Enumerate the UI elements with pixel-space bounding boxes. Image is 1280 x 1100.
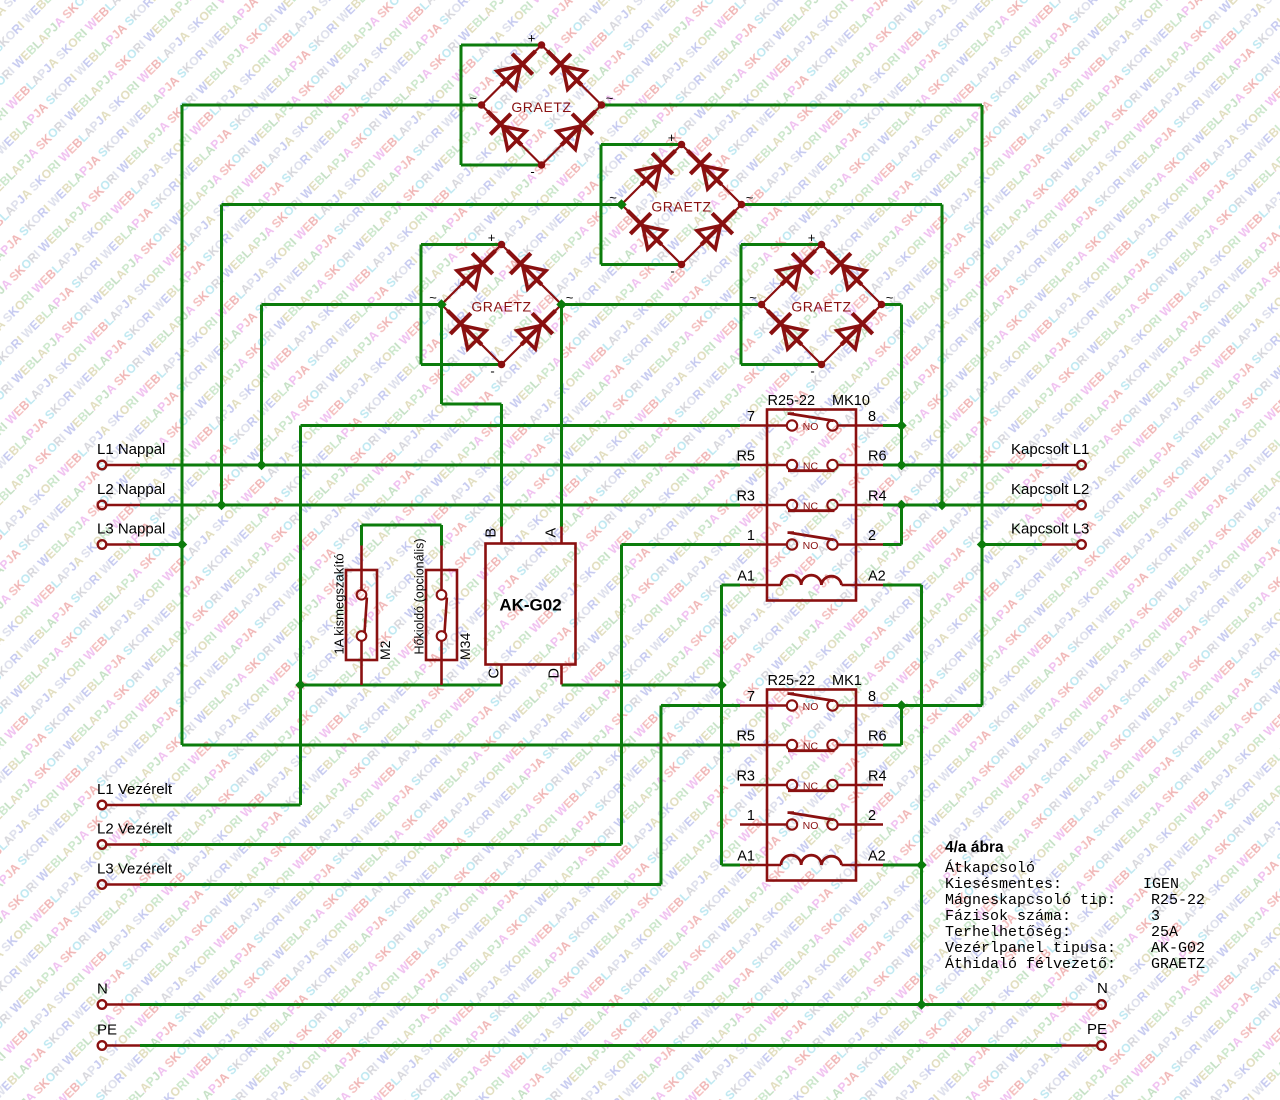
wire B3 jog vertical to pin B [500,404,503,527]
svg-text:3: 3 [1151,908,1160,925]
wire GRAETZ bridge B3 +/- short (top) [421,243,502,246]
contactor MK10 (R25-22) [736,393,886,601]
terminal N [98,1000,107,1009]
breaker M34 [413,538,474,685]
svg-text:Áthidaló félvezető:: Áthidaló félvezető: [945,955,1116,973]
wire PE rail [140,1044,1062,1047]
wire B4 ~right horizontal [882,303,902,306]
junction B2 right / R4 row [937,500,947,510]
terminal Kapcsolt L2 [1077,501,1086,510]
svg-text:2: 2 [868,528,876,544]
wire MK1 row8 horizontal [902,704,983,707]
terminal L3 Nappal pin stub [107,543,140,546]
breaker M2 top pin [360,546,363,591]
wire pin D horizontal [562,684,722,687]
wire B2 ~right horizontal [742,203,943,206]
svg-text:NC: NC [803,460,819,472]
svg-text:AK-G02: AK-G02 [1151,940,1205,957]
terminal L3 Vezérelt pin stub [107,883,140,886]
breaker M34 bottom pin [440,641,443,685]
wire MK10 pin8 to junction [883,424,902,427]
wire MK1 A1 horizontal [722,864,741,867]
wire L3 Vezerelt horizontal [140,883,661,886]
wire GRAETZ bridge B2 +/- short (top) [601,143,682,146]
wire GRAETZ bridge B2 +/- short (bottom) [601,263,682,266]
AK-G02 box [486,544,576,665]
junction MK1 A2 / N vertical [916,860,926,870]
MK10 contact NO (pins 1/2) [740,543,787,546]
svg-text:7: 7 [747,689,755,705]
terminal PE pin stub [107,1044,140,1047]
MK10 contact NC (pins R3/R4) [740,504,787,507]
wire GRAETZ bridge B1 +/- short (left) [460,45,463,165]
wire MK1 pin7 row [661,704,740,707]
svg-text:N: N [1097,980,1108,997]
terminal PE [98,1041,107,1050]
breaker M2 box [346,570,377,660]
svg-text:L1 Nappal: L1 Nappal [97,441,165,458]
MK10 contact NO (pins 7/8) [740,424,787,427]
junction B2 ~left vertex [616,199,626,209]
wire B2 ~right vertical [941,205,944,506]
wire L2 Nappal horizontal [140,504,740,507]
breaker M34 top pin [440,546,443,591]
svg-text:Átkapcsoló: Átkapcsoló [945,859,1035,877]
svg-text:L2 Vezérelt: L2 Vezérelt [97,821,173,838]
junction bottom rail / L1 Vezerelt [295,680,305,690]
breaker M2 [332,546,394,686]
AK-G02 pin C stub [500,665,503,685]
svg-text:Kapcsolt L3: Kapcsolt L3 [1011,521,1089,538]
svg-text:L1 Vezérelt: L1 Vezérelt [97,781,173,798]
svg-text:1A kismegszakító: 1A kismegszakító [332,553,347,654]
MK1 coil winding (pins A1/A2) [740,864,781,867]
wire B3 ~left to L1 Nappal (horiz) [262,303,442,306]
svg-text:NC: NC [803,740,819,752]
svg-text:PE: PE [1087,1021,1107,1038]
svg-text:NO: NO [803,701,819,713]
contactor MK1 (R25-22) [736,673,886,881]
wire MK1 pin8 to junction [883,704,902,707]
wire GRAETZ bridge B4 +/- short (left) [740,245,743,365]
svg-text:NC: NC [803,500,819,512]
wire B2 ~left to L2 Nappal (horiz) [222,203,622,206]
svg-text:R5: R5 [736,729,755,745]
svg-text:AK-G02: AK-G02 [499,596,561,615]
AK-G02 pin A stub [560,527,563,544]
svg-text:R25-22: R25-22 [768,393,816,409]
terminal N right pin stub [1062,1003,1097,1006]
svg-text:8: 8 [868,689,876,705]
contactor MK10 box [767,410,856,601]
wire A1 net vertical [720,585,723,865]
wire L3 Nappal horizontal [140,543,182,546]
junction pin D rail / A1 net [716,680,726,690]
wire B3 ~left to L1 Nappal (vert) [260,305,263,466]
wire A2/N vertical [920,585,923,1005]
svg-text:L2 Nappal: L2 Nappal [97,481,165,498]
svg-text:R25-22: R25-22 [768,673,816,689]
wire B1 ~left vertical down to MK1 R5 [181,105,184,745]
svg-text:1: 1 [747,528,755,544]
svg-text:L3 Vezérelt: L3 Vezérelt [97,861,173,878]
svg-text:Kiesésmentes:: Kiesésmentes: [945,876,1062,893]
wire MK10 pin1 row [622,543,741,546]
svg-text:NO: NO [803,421,819,433]
svg-text:R6: R6 [868,449,887,465]
wire MK10 junction down to R6 row [900,426,903,466]
MK1 contact NO (pins 7/8) [740,704,787,707]
wire bottom rail M2/M34/C [301,684,502,687]
terminal N right [1097,1000,1106,1009]
svg-text:8: 8 [868,409,876,425]
breaker M2 bottom pin [360,641,363,685]
terminal L1 Nappal [98,461,107,470]
breaker M2 contact circles and blade [357,590,367,600]
junction B3 ~right vertex [556,299,566,309]
terminal L3 Vezérelt [98,880,107,889]
GRAETZ bridge rectifier B3 [429,230,574,379]
svg-text:M2: M2 [377,640,393,660]
wire to MK1 R5 horizontal [182,744,740,747]
contactor MK1 box [767,690,856,881]
svg-text:A2: A2 [868,849,886,865]
AK-G02 pin D stub [560,665,563,685]
svg-text:R3: R3 [736,489,755,505]
junction L1 Nappal / B3 left [256,460,266,470]
wire L1 Nappal horizontal [140,464,740,467]
junction MK10 R6 row [896,460,906,470]
junction MK10 R4 row [896,500,906,510]
svg-text:A1: A1 [737,849,755,865]
wire MK10 R6 row to Kapcsolt L1 [883,464,1042,467]
svg-text:NO: NO [803,540,819,552]
MK1 contact NC (pins R3/R4) [740,784,787,787]
wire L2 Vezerelt horizontal [140,843,622,846]
wire MK1 junction down to R6 [900,706,903,746]
junction N rail / A2 vertical [916,999,926,1009]
svg-text:B: B [484,528,500,538]
svg-text:25A: 25A [1151,924,1178,941]
terminal N pin stub [107,1003,140,1006]
GRAETZ bridge rectifier B2 [609,130,754,279]
svg-text:D: D [547,668,563,678]
terminal PE right [1097,1041,1106,1050]
svg-text:R25-22: R25-22 [1151,892,1205,909]
terminal L2 Nappal [98,501,107,510]
wire B2 ~left to L2 Nappal (vert) [220,205,223,506]
svg-text:A: A [544,528,560,538]
junction L3 Nappal / B1 left [177,539,187,549]
svg-text:Kapcsolt L2: Kapcsolt L2 [1011,481,1089,498]
terminal L1 Vezérelt pin stub [107,804,140,807]
svg-text:NO: NO [803,820,819,832]
wire B3 jog vertical 1 [440,305,443,405]
breaker M34 contact circles and blade [437,590,447,600]
wire B3 ~right to B4 ~left [562,303,762,306]
svg-text:PE: PE [97,1022,117,1039]
wire B4 ~right vertical [900,305,903,426]
wire MK10 A2 horizontal [883,584,922,587]
wire MK10 pin2 up to R4 row [900,505,903,545]
terminal L1 Vezérelt [98,801,107,810]
wire MK1 R6 horizontal [883,744,902,747]
svg-text:MK10: MK10 [832,393,870,409]
junction MK1 pin8 row [896,700,906,710]
svg-text:4/a ábra: 4/a ábra [945,839,1004,856]
wire MK1 A2 horizontal [883,864,922,867]
wire Kapcsolt L3 branch [982,543,1042,546]
svg-text:Mágneskapcsoló tip:: Mágneskapcsoló tip: [945,892,1116,909]
svg-text:R4: R4 [868,769,887,785]
junction MK10 pin8 row [896,420,906,430]
wire GRAETZ bridge B2 +/- short (left) [600,145,603,265]
MK10 coil winding (pins A1/A2) [740,584,781,587]
svg-text:N: N [97,981,108,998]
terminal L2 Vezérelt [98,840,107,849]
terminal Kapcsolt L1 [1077,461,1086,470]
terminal Kapcsolt L3 pin stub [1042,543,1077,546]
svg-text:GRAETZ: GRAETZ [1151,956,1205,973]
terminal Kapcsolt L3 [1077,540,1086,549]
AK-G02 pin B stub [500,527,503,544]
wire L2 Vezerelt vertical [620,545,623,845]
terminal PE right pin stub [1062,1044,1097,1047]
breaker M34 box [426,570,457,660]
junction B3 ~left vertex [436,299,446,309]
junction Kapcsolt L3 tap [977,539,987,549]
wire GRAETZ bridge B1 +/- short (top) [461,44,542,47]
svg-text:R5: R5 [736,449,755,465]
svg-text:C: C [487,668,503,678]
svg-text:R3: R3 [736,769,755,785]
terminal L2 Nappal pin stub [107,504,140,507]
wire GRAETZ bridge B1 +/- short (bottom) [461,164,542,167]
svg-text:Kapcsolt L1: Kapcsolt L1 [1011,441,1089,458]
wire M2-M34 top tie [362,524,442,527]
wire MK10 pin2 horizontal [883,543,902,546]
wire GRAETZ bridge B3 +/- short (bottom) [421,363,502,366]
wire GRAETZ bridge B4 +/- short (bottom) [741,363,822,366]
MK1 contact NO (pins 1/2) [740,823,787,826]
svg-text:L3 Nappal: L3 Nappal [97,521,165,538]
svg-text:R6: R6 [868,729,887,745]
wire M2 top riser [360,525,363,546]
GRAETZ bridge rectifier B1 [469,31,614,180]
wire B1 ~right vertical [981,105,984,706]
terminal L1 Nappal pin stub [107,464,140,467]
control panel U1 AK-G02 [484,527,576,685]
wire M34 top riser [440,525,443,546]
terminal Kapcsolt L1 pin stub [1042,464,1077,467]
wire GRAETZ bridge B4 +/- short (top) [741,243,822,246]
wire GRAETZ bridge B3 +/- short (left) [420,245,423,365]
terminal L3 Nappal [98,540,107,549]
wire B1 ~right horizontal [602,104,983,107]
wire MK10 A1 horizontal [722,584,741,587]
svg-text:2: 2 [868,808,876,824]
wire B1 ~left horizontal [182,104,482,107]
svg-text:7: 7 [747,409,755,425]
junction L2 Nappal / B2 left [216,500,226,510]
GRAETZ bridge rectifier B4 [749,230,894,379]
wire B3 jog horizontal [442,403,502,406]
wire B3 ~right down to pin A [560,305,563,527]
wire L1 Vezerelt horizontal [140,804,301,807]
MK10 contact NC (pins R5/R6) [740,464,787,467]
wire N rail [140,1003,1062,1006]
svg-text:A2: A2 [868,569,886,585]
svg-text:Vezérlpanel tipusa:: Vezérlpanel tipusa: [945,940,1116,957]
svg-text:Hőkioldó (opcionális): Hőkioldó (opcionális) [413,538,427,654]
MK1 contact NC (pins R5/R6) [740,744,787,747]
svg-text:A1: A1 [737,569,755,585]
svg-text:Terhelhetőség:: Terhelhetőség: [945,924,1071,941]
svg-text:Fázisok száma:: Fázisok száma: [945,908,1071,925]
wire MK10 pin7 row [301,424,741,427]
terminal L2 Vezérelt pin stub [107,843,140,846]
svg-text:IGEN: IGEN [1143,876,1179,893]
terminal Kapcsolt L2 pin stub [1042,504,1077,507]
wire L3 Vezerelt vertical [660,706,663,885]
svg-text:1: 1 [747,808,755,824]
svg-text:M34: M34 [457,633,473,660]
svg-text:R4: R4 [868,489,887,505]
wire L1 Vezerelt vertical [299,426,302,806]
wire MK10 R4 row to Kapcsolt L2 [883,504,1042,507]
svg-text:MK1: MK1 [832,673,862,689]
svg-text:NC: NC [803,780,819,792]
